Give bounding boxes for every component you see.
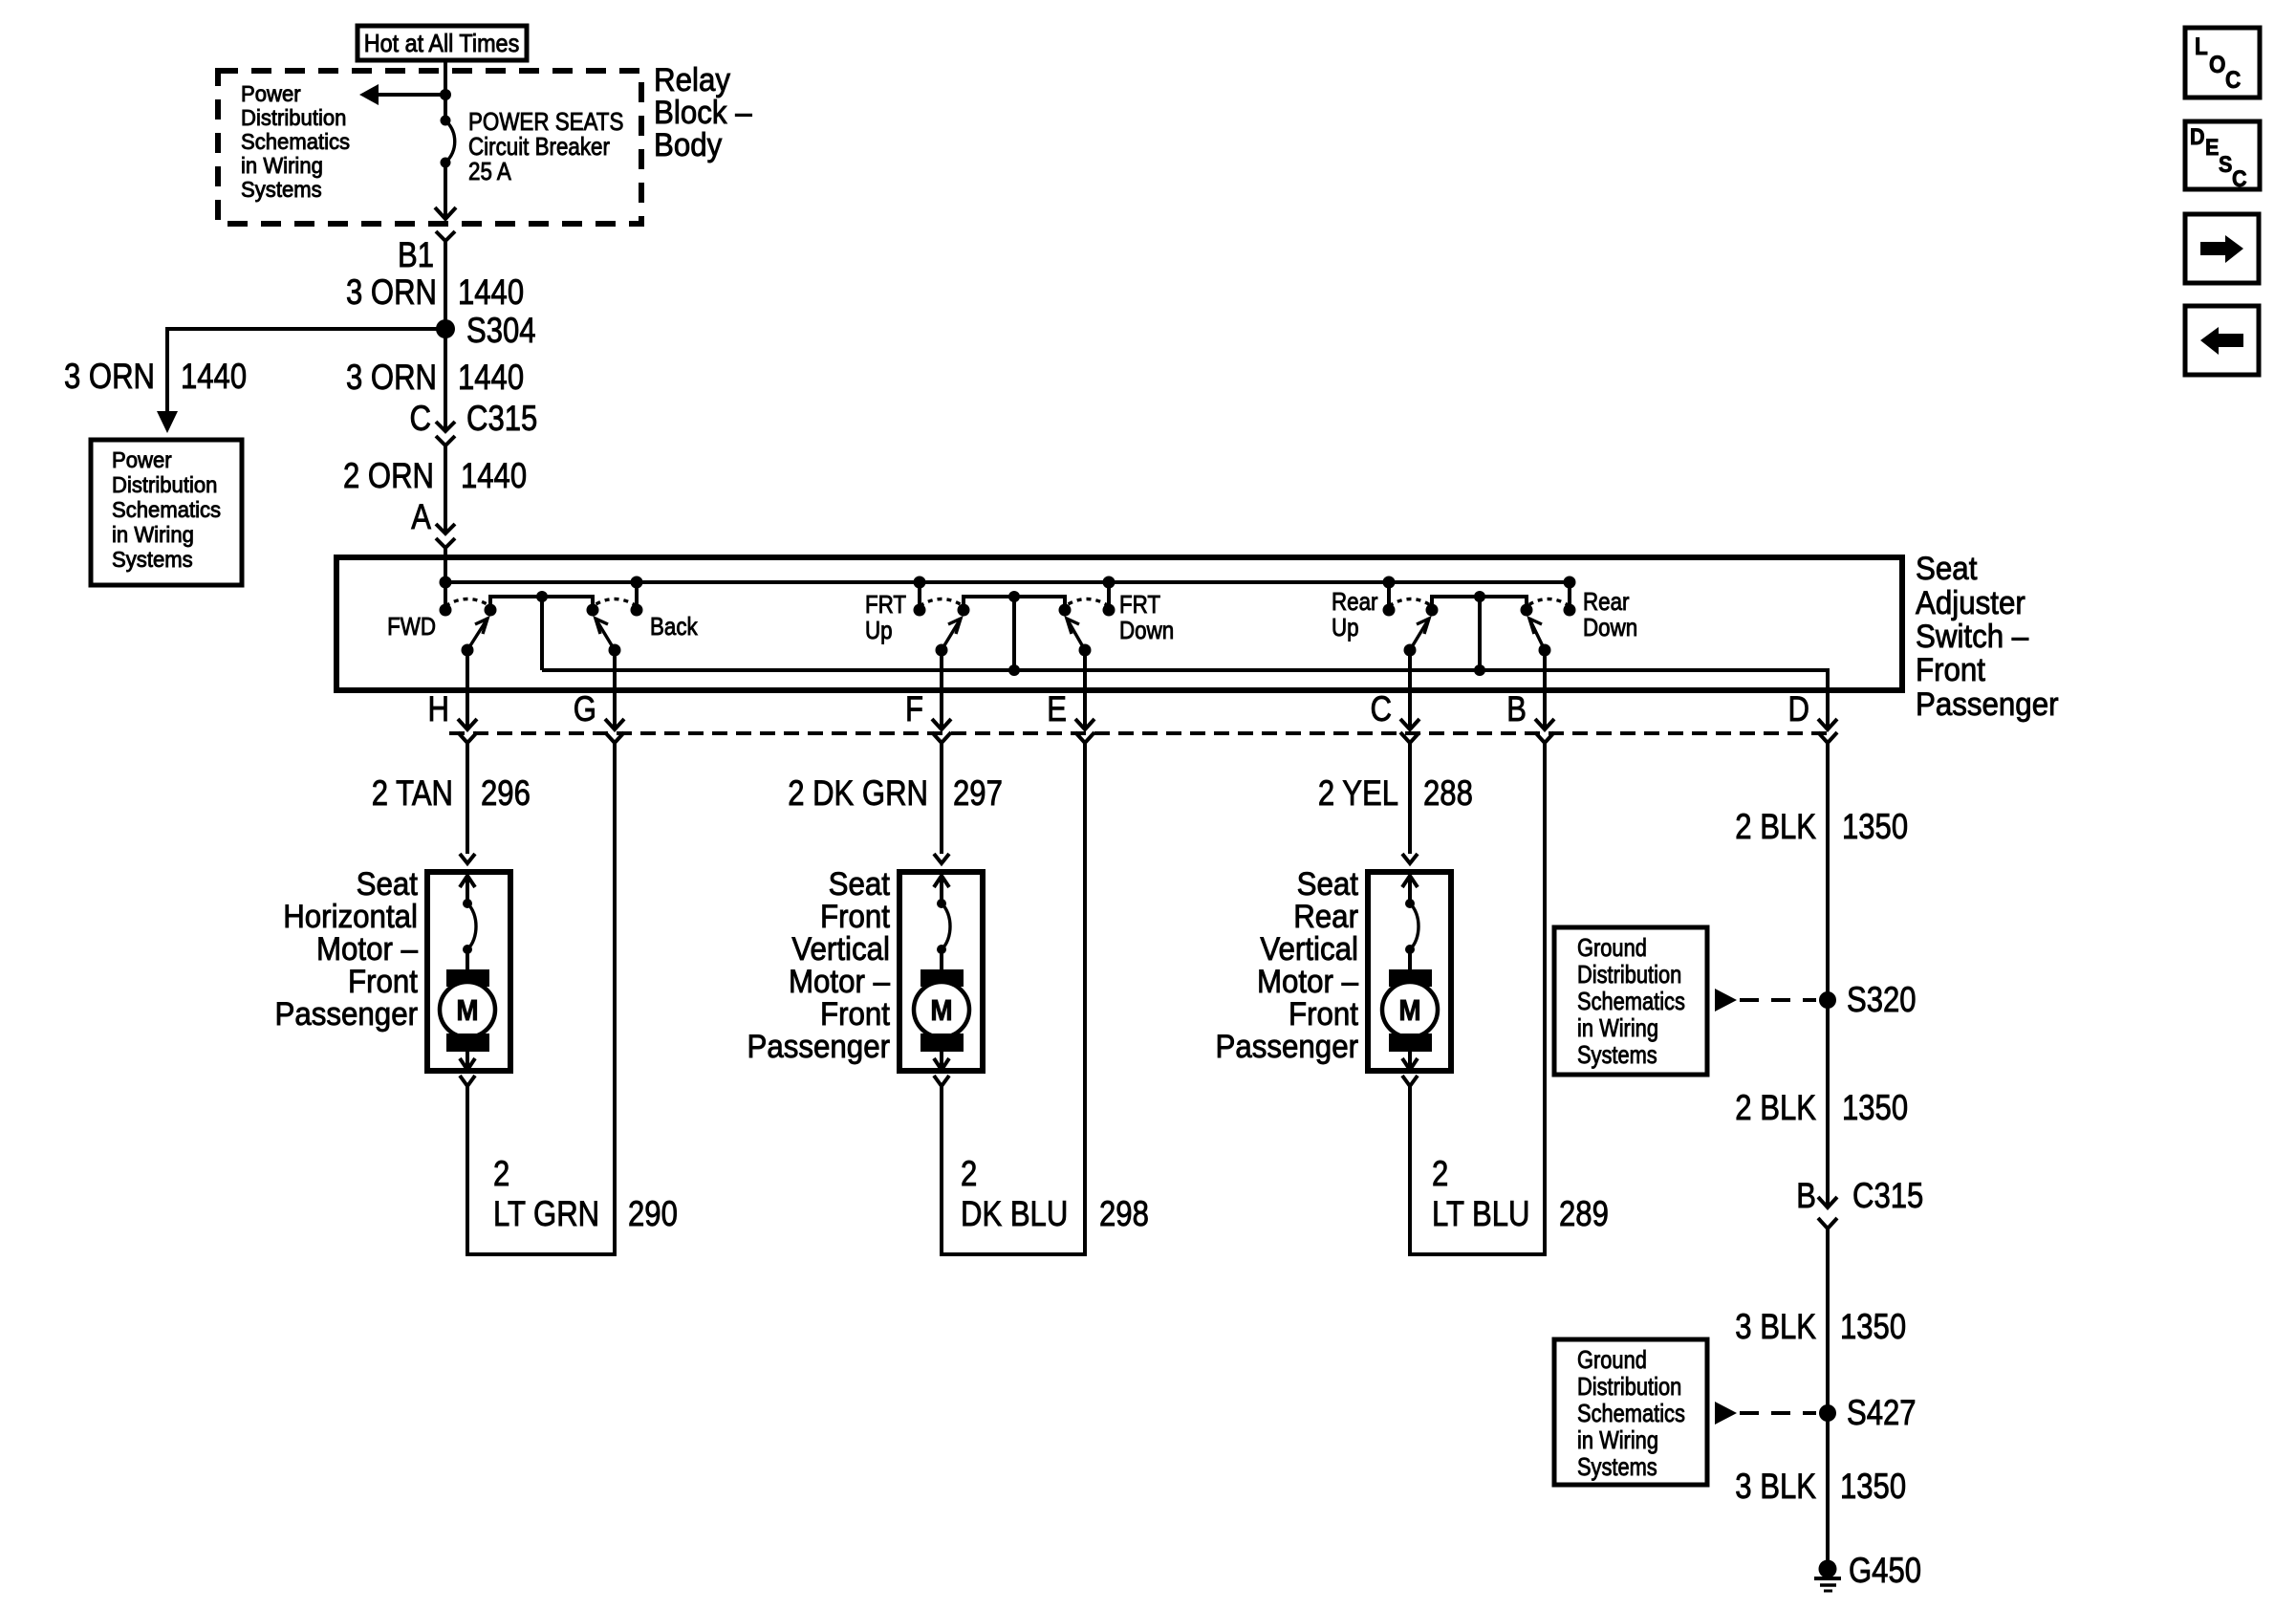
wire label: 2 BLK 1350 (below S320)	[1735, 1088, 1908, 1127]
svg-text:FRT: FRT	[865, 590, 906, 619]
svg-text:E: E	[2205, 135, 2219, 161]
relay block dashed box	[218, 71, 641, 224]
power label box "Hot at All Times"	[357, 26, 527, 60]
reference box: Ground Distribution Schematics in Wiring Systems (upper)	[1554, 927, 1707, 1075]
wire label: 3 ORN 1440 (left branch)	[64, 357, 247, 396]
switch Rear Down pole and contact	[1521, 582, 1638, 642]
wire label: 2 LT BLU 289	[1432, 1154, 1609, 1233]
motor M2 box: Seat Front Vertical Motor - Front Passenger	[899, 872, 983, 1071]
svg-text:Schematics: Schematics	[112, 497, 221, 522]
bridge between FRT Up/Down contacts	[964, 591, 1065, 676]
svg-text:Systems: Systems	[241, 177, 322, 202]
svg-text:C: C	[2225, 67, 2241, 94]
wire branch from S304 to left with arrow	[157, 329, 445, 433]
switch arm E (FRT wiper right)	[1067, 619, 1092, 657]
icon button previous arrow	[2185, 306, 2259, 375]
svg-text:G: G	[574, 689, 596, 729]
svg-text:1440: 1440	[461, 456, 527, 495]
svg-text:Front: Front	[1289, 996, 1359, 1033]
svg-text:Relay: Relay	[654, 62, 730, 98]
wire label: 2 TAN 296	[372, 773, 531, 813]
svg-text:2 BLK: 2 BLK	[1735, 807, 1816, 846]
motor M3 box: Seat Rear Vertical Motor - Front Passenger	[1368, 872, 1451, 1071]
svg-text:Up: Up	[1332, 613, 1359, 642]
switch Back pole and contact	[587, 582, 699, 641]
svg-text:Passenger: Passenger	[275, 996, 419, 1033]
svg-text:S: S	[2219, 152, 2232, 178]
wire label: 2 DK BLU 298	[961, 1154, 1149, 1233]
svg-text:2: 2	[1432, 1154, 1448, 1193]
svg-text:G450: G450	[1849, 1551, 1921, 1590]
label: Relay Block - Body	[654, 62, 752, 163]
svg-text:C: C	[2232, 166, 2247, 192]
svg-text:Front: Front	[348, 964, 419, 1000]
connector pin C	[1371, 650, 1420, 743]
svg-text:290: 290	[628, 1194, 678, 1233]
svg-text:Back: Back	[650, 612, 699, 641]
connector pin G	[574, 650, 624, 743]
svg-text:2: 2	[961, 1154, 977, 1193]
svg-text:25 A: 25 A	[468, 157, 511, 185]
svg-text:in Wiring: in Wiring	[1577, 1425, 1658, 1454]
svg-text:Power: Power	[241, 81, 301, 106]
wire label: 2 BLK 1350	[1735, 807, 1908, 846]
connector below motor M1 and return wire to G	[460, 743, 615, 1254]
label: Seat Adjuster Switch - Front Passenger	[1916, 551, 2059, 723]
svg-text:O: O	[2209, 52, 2226, 78]
svg-text:S427: S427	[1847, 1393, 1917, 1432]
svg-text:Horizontal: Horizontal	[283, 899, 418, 935]
svg-text:Down: Down	[1119, 616, 1174, 644]
switch FRT Down pole and contact	[1059, 582, 1175, 644]
connector C315 pin C	[410, 399, 538, 446]
svg-text:C315: C315	[1852, 1176, 1923, 1215]
svg-text:Seat: Seat	[1297, 866, 1359, 903]
svg-text:3 ORN: 3 ORN	[346, 272, 437, 312]
connector pin D	[1788, 689, 1838, 743]
svg-text:in Wiring: in Wiring	[1577, 1013, 1658, 1042]
connector B1 (chevron below relay block)	[398, 231, 455, 274]
wire label: 2 YEL 288	[1318, 773, 1473, 813]
reference arrow and dashed link to S427	[1715, 1402, 1816, 1425]
wire label: 3 BLK 1350 (below S427)	[1735, 1467, 1906, 1506]
motor M3 internal breaker and motor symbol	[1382, 876, 1438, 1070]
svg-text:Distribution: Distribution	[112, 472, 217, 497]
node: bus junctions	[440, 577, 1576, 589]
svg-text:S320: S320	[1847, 980, 1917, 1019]
wire label: 2 DK GRN 297	[788, 773, 1003, 813]
svg-text:Ground: Ground	[1577, 933, 1647, 962]
svg-text:Seat: Seat	[829, 866, 891, 903]
svg-text:1350: 1350	[1840, 1467, 1906, 1506]
wire S304 down to C315	[444, 329, 447, 431]
svg-text:in Wiring: in Wiring	[241, 153, 323, 178]
svg-text:Distribution: Distribution	[241, 105, 346, 130]
svg-text:M: M	[1398, 993, 1420, 1027]
svg-text:Up: Up	[865, 616, 893, 644]
svg-text:Distribution: Distribution	[1577, 960, 1681, 989]
bridge between FWD/Back contacts	[490, 591, 593, 670]
svg-text:Vertical: Vertical	[791, 931, 890, 968]
connector pin H	[428, 650, 478, 743]
svg-text:D: D	[1788, 689, 1810, 729]
svg-text:Distribution: Distribution	[1577, 1372, 1681, 1401]
switch arm H (FWD-Back wiper)	[462, 619, 488, 657]
svg-text:LT GRN: LT GRN	[493, 1194, 599, 1233]
svg-text:1440: 1440	[458, 358, 524, 397]
svg-text:Schematics: Schematics	[1577, 1399, 1685, 1427]
wire C315 to switch connector	[444, 446, 447, 533]
wire F to motor M2	[934, 743, 949, 863]
circuit breaker CB1 POWER SEATS 25 A	[441, 116, 455, 168]
svg-text:H: H	[428, 689, 450, 729]
wire: feed into switch and bus bar	[445, 548, 1570, 610]
wire label: 3 BLK 1350	[1735, 1307, 1906, 1346]
svg-text:Systems: Systems	[112, 547, 193, 572]
switch arm B (Rear wiper right)	[1529, 619, 1551, 657]
svg-text:Systems: Systems	[1577, 1452, 1657, 1481]
svg-text:B1: B1	[398, 235, 434, 274]
svg-text:Rear: Rear	[1583, 587, 1630, 616]
svg-text:S304: S304	[466, 311, 536, 350]
svg-text:3 ORN: 3 ORN	[64, 357, 155, 396]
svg-text:1350: 1350	[1842, 1088, 1908, 1127]
svg-text:Body: Body	[654, 127, 722, 163]
svg-text:Hot at All Times: Hot at All Times	[364, 29, 520, 57]
wire label: 3 ORN 1440 (below S304)	[346, 358, 524, 397]
svg-text:Schematics: Schematics	[1577, 987, 1685, 1015]
svg-text:2 TAN: 2 TAN	[372, 773, 453, 813]
svg-text:DK BLU: DK BLU	[961, 1194, 1068, 1233]
svg-text:Front: Front	[820, 996, 891, 1033]
motor M1 box: Seat Horizontal Motor - Front Passenger	[427, 872, 510, 1071]
splice node S320	[1819, 980, 1917, 1019]
svg-text:Motor –: Motor –	[1257, 964, 1358, 1000]
switch SW1 box: Seat Adjuster Switch - Front Passenger	[336, 557, 1902, 690]
connector pin A (switch input)	[411, 497, 455, 548]
switch FWD pole and contact	[387, 599, 496, 642]
wire: common return bus to pin D	[542, 670, 1828, 729]
svg-text:Motor –: Motor –	[316, 931, 418, 968]
svg-text:Seat: Seat	[357, 866, 419, 903]
svg-text:Systems: Systems	[1577, 1040, 1657, 1069]
reference arrow and dashed link to S320	[1715, 989, 1816, 1012]
svg-text:Block –: Block –	[654, 95, 752, 131]
connector pin B	[1506, 650, 1554, 743]
svg-text:2 BLK: 2 BLK	[1735, 1088, 1816, 1127]
svg-text:3 BLK: 3 BLK	[1735, 1307, 1816, 1346]
svg-text:Switch –: Switch –	[1916, 619, 2028, 655]
wire H to motor M1	[460, 743, 475, 863]
icon button DESC	[2185, 121, 2260, 192]
label: Seat Rear Vertical Motor - Front Passenger	[1216, 866, 1359, 1065]
connector C315 pin B (ground chain)	[1796, 1176, 1923, 1229]
svg-text:C: C	[410, 399, 432, 438]
wire branch arrow to Power Distribution Schematics (left)	[359, 84, 445, 105]
svg-text:1440: 1440	[181, 357, 247, 396]
wire label: 2 LT GRN 290	[493, 1154, 678, 1233]
connector pin F	[905, 650, 951, 743]
svg-text:E: E	[1047, 689, 1067, 729]
svg-text:296: 296	[481, 773, 531, 813]
svg-text:A: A	[411, 497, 431, 536]
svg-text:D: D	[2190, 124, 2205, 150]
switch arm F (FRT wiper left)	[936, 619, 962, 657]
ground G450	[1814, 1551, 1921, 1591]
svg-text:Passenger: Passenger	[1916, 686, 2059, 723]
reference box: Ground Distribution Schematics in Wiring Systems (lower)	[1554, 1339, 1707, 1485]
bridge between Rear Up/Down contacts	[1432, 591, 1527, 676]
svg-text:Passenger: Passenger	[1216, 1029, 1359, 1065]
svg-text:3 BLK: 3 BLK	[1735, 1467, 1816, 1506]
svg-text:FRT: FRT	[1119, 590, 1160, 619]
label: Seat Front Vertical Motor - Front Passenger	[747, 866, 891, 1065]
connector below motor M2 and return wire to E	[934, 743, 1085, 1254]
svg-text:3 ORN: 3 ORN	[346, 358, 437, 397]
svg-text:L: L	[2195, 33, 2208, 60]
svg-text:C: C	[1371, 689, 1393, 729]
svg-text:M: M	[456, 993, 478, 1027]
value label: POWER SEATS Circuit Breaker 25 A	[468, 107, 623, 185]
svg-text:1350: 1350	[1840, 1307, 1906, 1346]
switch arm C (Rear wiper left)	[1404, 619, 1430, 657]
icon button LOC	[2185, 28, 2260, 98]
reference box: Power Distribution Schematics in Wiring Systems	[91, 440, 242, 585]
switch Rear Up pole and contact	[1332, 582, 1439, 642]
svg-text:C315: C315	[466, 399, 537, 438]
svg-text:Rear: Rear	[1332, 587, 1378, 616]
svg-text:Down: Down	[1583, 613, 1637, 642]
node (junction at branch)	[440, 89, 451, 100]
svg-text:297: 297	[953, 773, 1003, 813]
svg-text:Front: Front	[820, 899, 891, 935]
motor M2 internal breaker and motor symbol	[914, 876, 969, 1070]
svg-text:289: 289	[1559, 1194, 1609, 1233]
motor M1 internal breaker and motor symbol	[440, 876, 495, 1070]
svg-text:Rear: Rear	[1293, 899, 1358, 935]
svg-text:2: 2	[493, 1154, 509, 1193]
label: Seat Horizontal Motor - Front Passenger	[275, 866, 419, 1033]
note text: Power Distribution Schematics in Wiring Systems (in relay block)	[241, 81, 350, 202]
connector pin E	[1047, 650, 1094, 743]
svg-text:Front: Front	[1916, 652, 1986, 688]
svg-text:288: 288	[1423, 773, 1473, 813]
svg-text:B: B	[1796, 1176, 1816, 1215]
icon button next arrow	[2185, 214, 2259, 283]
svg-text:in Wiring: in Wiring	[112, 522, 194, 547]
svg-text:F: F	[905, 689, 923, 729]
splice node S304	[436, 311, 536, 350]
svg-text:B: B	[1506, 689, 1527, 729]
svg-text:LT BLU: LT BLU	[1432, 1194, 1530, 1233]
switch arm G (FWD-Back wiper right)	[596, 619, 621, 657]
svg-text:Seat: Seat	[1916, 551, 1978, 587]
svg-text:FWD: FWD	[387, 612, 436, 641]
svg-text:1440: 1440	[458, 272, 524, 312]
svg-text:Motor –: Motor –	[789, 964, 890, 1000]
svg-text:2 ORN: 2 ORN	[343, 456, 434, 495]
svg-text:Vertical: Vertical	[1260, 931, 1358, 968]
wire from breaker to relay box edge with arrow	[435, 163, 456, 219]
splice node S427	[1819, 1393, 1917, 1432]
connector below motor M3 and return wire to B	[1402, 743, 1545, 1254]
svg-text:Passenger: Passenger	[747, 1029, 891, 1065]
wire D ground chain down	[1826, 743, 1830, 1207]
wire to S427	[1826, 1229, 1830, 1560]
svg-text:2 YEL: 2 YEL	[1318, 773, 1398, 813]
svg-text:2 DK GRN: 2 DK GRN	[788, 773, 928, 813]
wire from Hot at All Times down	[444, 60, 447, 120]
connector C340 dashed line	[449, 731, 1828, 735]
wire label: 2 ORN 1440	[343, 456, 527, 495]
svg-text:Schematics: Schematics	[241, 129, 350, 154]
wire B1 to S304	[444, 241, 447, 329]
wire C to motor M3	[1402, 743, 1418, 863]
svg-text:298: 298	[1099, 1194, 1149, 1233]
svg-text:1350: 1350	[1842, 807, 1908, 846]
svg-text:Power: Power	[112, 447, 172, 472]
wire label: 3 ORN 1440	[346, 272, 524, 312]
svg-text:Adjuster: Adjuster	[1916, 585, 2025, 621]
switch FRT Up pole and contact	[865, 582, 970, 644]
svg-text:M: M	[930, 993, 952, 1027]
svg-text:Ground: Ground	[1577, 1345, 1647, 1374]
